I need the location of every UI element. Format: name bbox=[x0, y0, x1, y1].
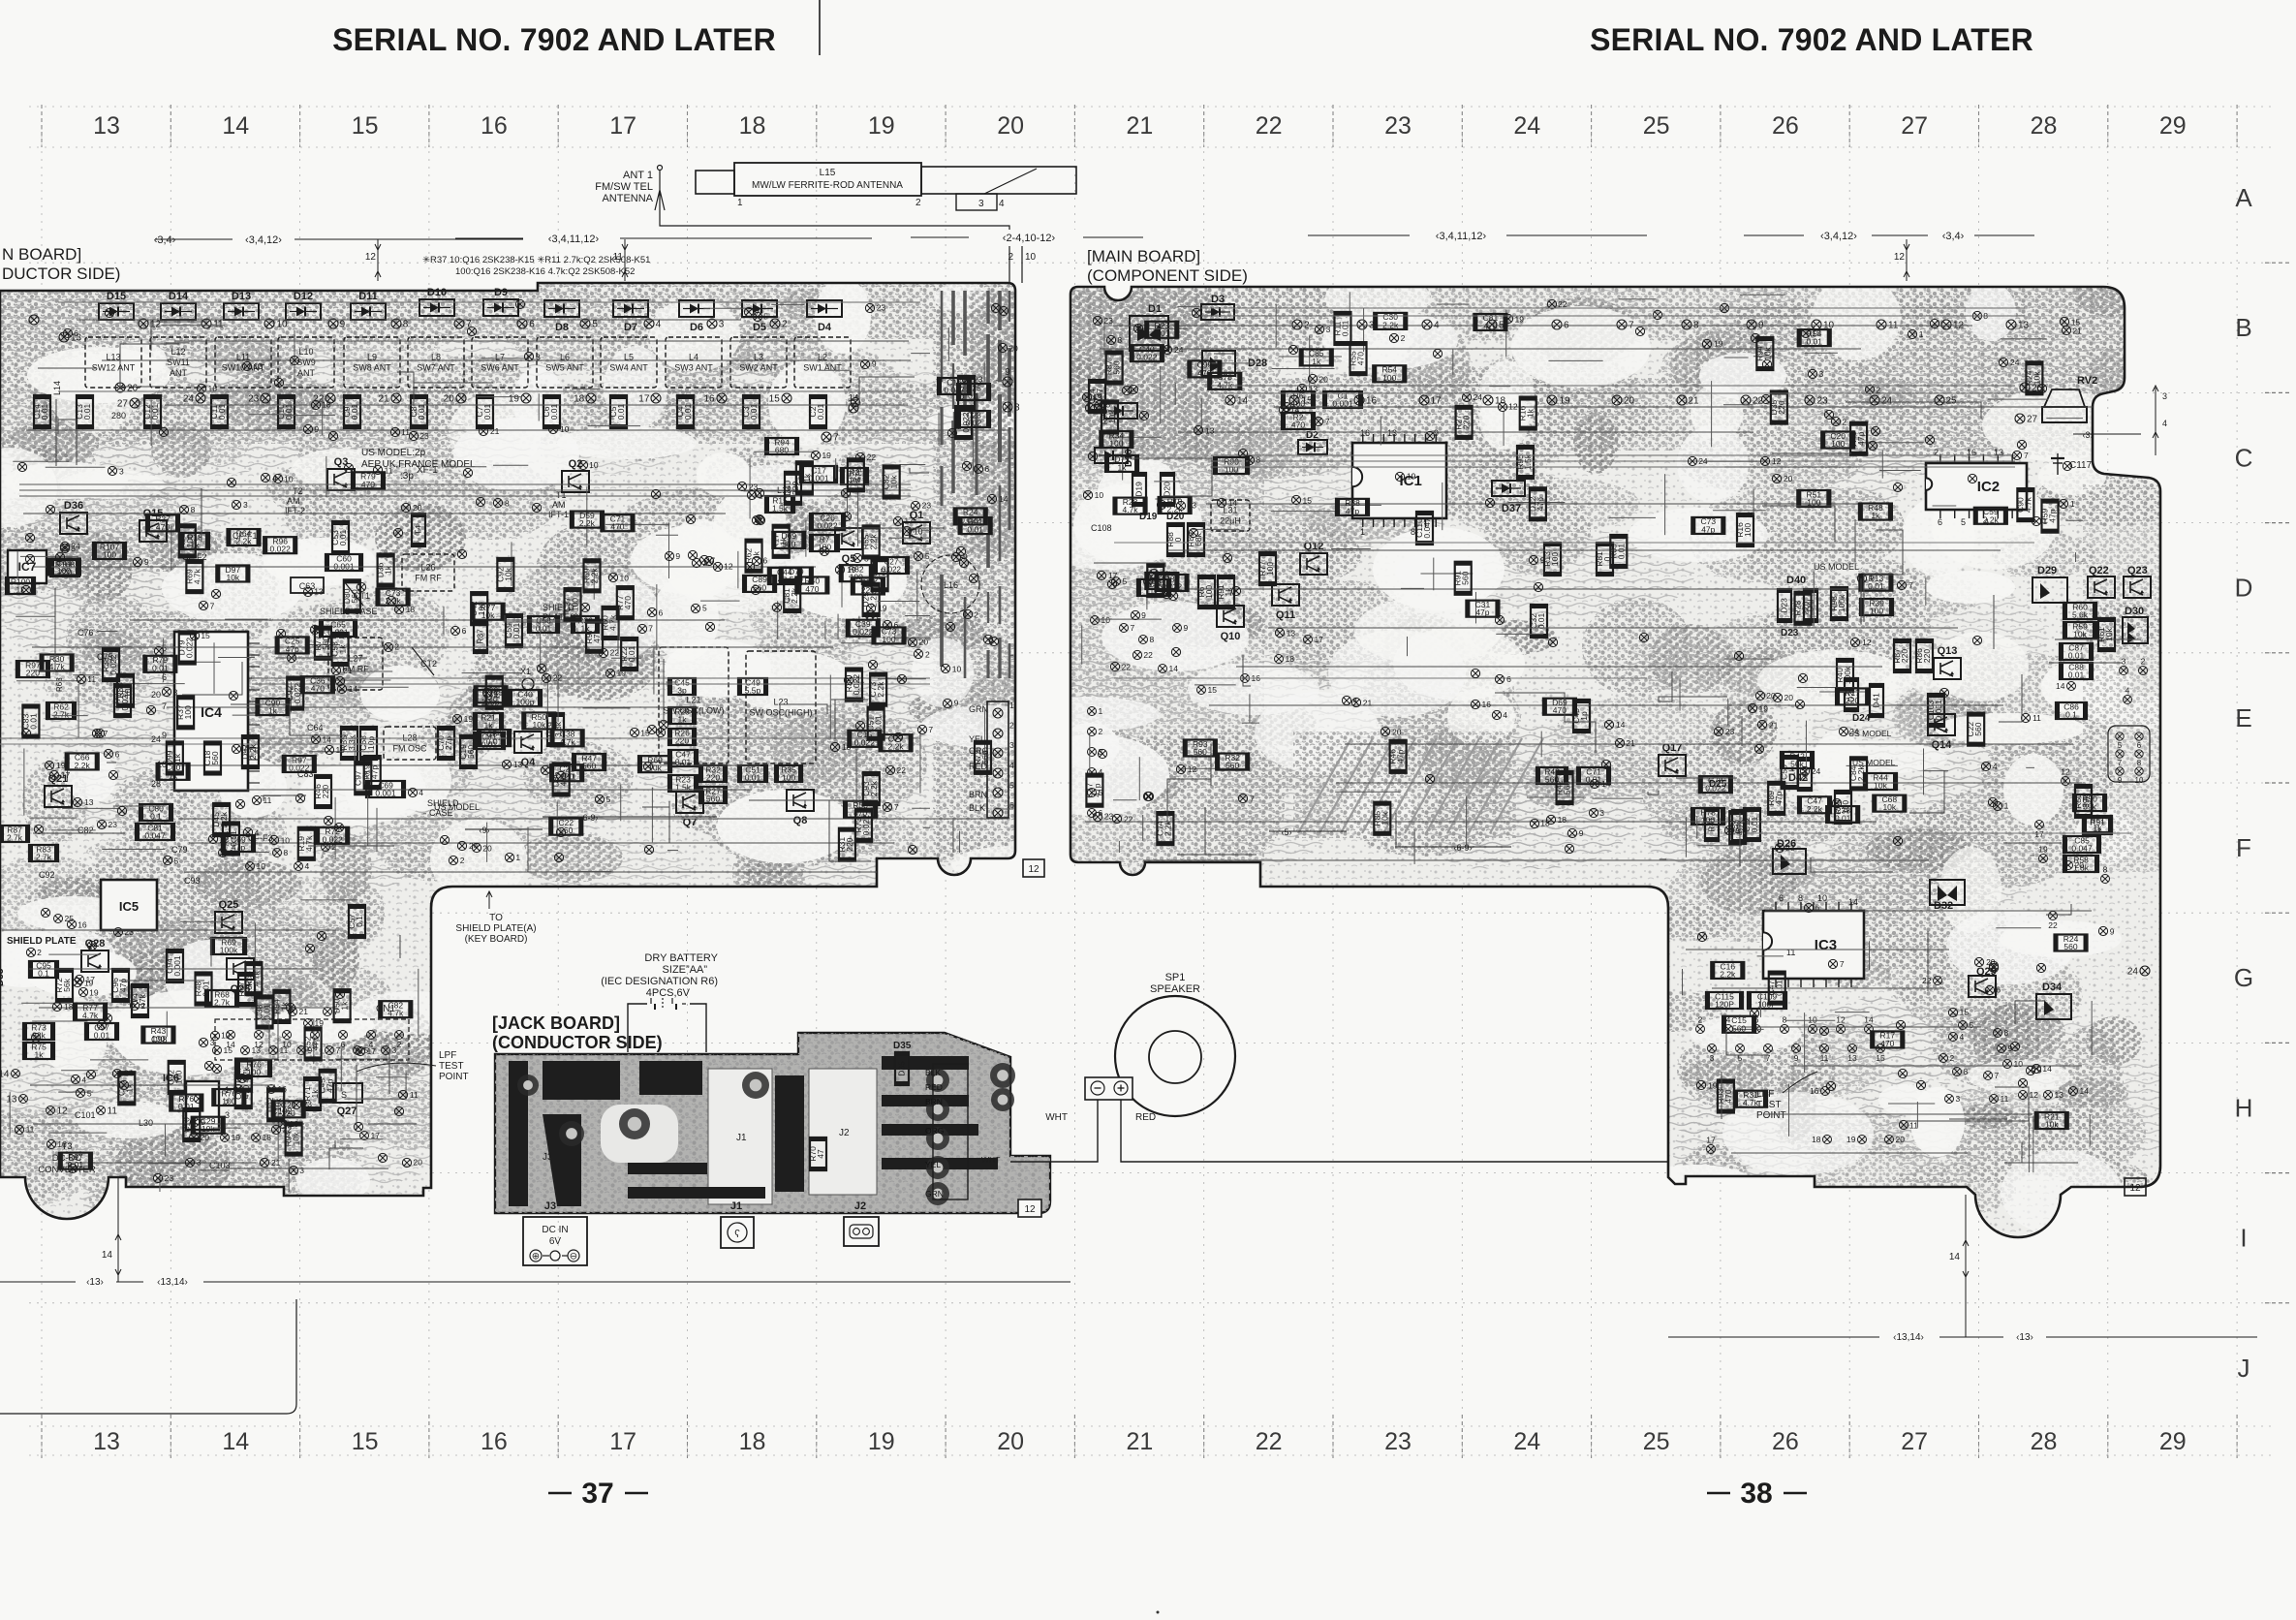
svg-text:6: 6 bbox=[74, 328, 78, 338]
svg-text:8: 8 bbox=[1783, 1015, 1787, 1025]
svg-text:L14: L14 bbox=[52, 381, 62, 395]
svg-text:7: 7 bbox=[833, 433, 839, 444]
svg-text:560: 560 bbox=[1226, 761, 1239, 770]
svg-text:10: 10 bbox=[2135, 776, 2144, 785]
svg-text:1p: 1p bbox=[1579, 711, 1589, 721]
svg-text:11: 11 bbox=[1820, 1053, 1829, 1063]
svg-text:RV2: RV2 bbox=[2077, 375, 2097, 387]
svg-text:22: 22 bbox=[2048, 920, 2058, 930]
svg-text:470: 470 bbox=[1880, 1039, 1894, 1048]
svg-text:‹13,14›: ‹13,14› bbox=[1893, 1332, 1924, 1343]
svg-text:R63: R63 bbox=[55, 677, 64, 692]
svg-text:6: 6 bbox=[462, 626, 467, 636]
svg-text:28: 28 bbox=[2031, 1428, 2058, 1455]
svg-text:1: 1 bbox=[2070, 499, 2075, 509]
svg-text:10k: 10k bbox=[2032, 371, 2041, 385]
svg-text:0.01: 0.01 bbox=[94, 1031, 110, 1041]
svg-text:10k: 10k bbox=[2045, 1120, 2059, 1130]
svg-text:20: 20 bbox=[1624, 396, 1635, 407]
svg-text:23: 23 bbox=[749, 482, 759, 491]
svg-text:10: 10 bbox=[2014, 1059, 2024, 1069]
svg-text:FM/SW TEL: FM/SW TEL bbox=[595, 181, 653, 193]
svg-text:11: 11 bbox=[1909, 1120, 1918, 1130]
svg-text:100p: 100p bbox=[516, 698, 535, 707]
svg-text:7: 7 bbox=[1840, 959, 1845, 969]
svg-text:2.2k: 2.2k bbox=[888, 742, 905, 752]
svg-text:3: 3 bbox=[1818, 369, 1823, 379]
svg-text:Q8: Q8 bbox=[793, 815, 808, 826]
svg-text:24: 24 bbox=[2127, 967, 2139, 978]
svg-text:0.022: 0.022 bbox=[185, 638, 195, 659]
svg-text:4.7k: 4.7k bbox=[360, 769, 370, 786]
svg-text:13: 13 bbox=[254, 361, 264, 371]
svg-text:560: 560 bbox=[350, 589, 359, 603]
svg-text:4.7k: 4.7k bbox=[608, 614, 618, 631]
svg-text:10k: 10k bbox=[226, 573, 239, 582]
svg-text:⊕: ⊕ bbox=[532, 1252, 540, 1262]
svg-text:100: 100 bbox=[103, 550, 116, 560]
svg-text:0.01: 0.01 bbox=[536, 624, 552, 634]
svg-text:D9: D9 bbox=[494, 287, 508, 298]
svg-text:5: 5 bbox=[702, 604, 707, 613]
svg-text:ʕ: ʕ bbox=[734, 1229, 740, 1240]
svg-text:19: 19 bbox=[84, 978, 94, 987]
svg-text:1k: 1k bbox=[340, 1001, 350, 1011]
svg-text:19: 19 bbox=[868, 112, 895, 140]
svg-text:23: 23 bbox=[1725, 727, 1735, 736]
svg-text:10: 10 bbox=[1808, 1015, 1817, 1025]
svg-text:SW8 ANT: SW8 ANT bbox=[353, 363, 391, 373]
svg-text:20: 20 bbox=[1766, 691, 1776, 701]
svg-text:11: 11 bbox=[410, 1090, 419, 1100]
svg-text:6V: 6V bbox=[549, 1236, 562, 1247]
svg-text:20: 20 bbox=[1008, 343, 1018, 353]
svg-text:12: 12 bbox=[1508, 402, 1518, 412]
svg-text:100: 100 bbox=[1831, 439, 1845, 449]
svg-text:2.7k: 2.7k bbox=[53, 710, 70, 720]
svg-text:27: 27 bbox=[1901, 1428, 1928, 1455]
svg-text:20: 20 bbox=[1392, 727, 1402, 736]
svg-text:7: 7 bbox=[336, 1045, 341, 1055]
svg-text:J2: J2 bbox=[854, 1200, 866, 1212]
svg-text:17: 17 bbox=[609, 112, 636, 140]
svg-text:11: 11 bbox=[401, 427, 410, 437]
svg-text:4: 4 bbox=[2125, 686, 2130, 696]
svg-text:2: 2 bbox=[915, 198, 921, 208]
svg-text:10: 10 bbox=[1025, 252, 1037, 263]
svg-text:47: 47 bbox=[816, 1149, 825, 1159]
svg-text:100: 100 bbox=[1204, 585, 1214, 599]
svg-text:4: 4 bbox=[1960, 1032, 1965, 1042]
svg-text:21: 21 bbox=[2072, 326, 2082, 335]
svg-text:Q13: Q13 bbox=[1938, 645, 1958, 657]
svg-text:2.7k: 2.7k bbox=[214, 998, 231, 1008]
svg-text:14: 14 bbox=[323, 734, 332, 744]
svg-text:FM RF: FM RF bbox=[415, 574, 442, 583]
svg-text:L12: L12 bbox=[171, 347, 185, 357]
svg-text:2: 2 bbox=[460, 856, 465, 865]
svg-text:2.2k: 2.2k bbox=[1983, 514, 2000, 524]
svg-text:2.2k: 2.2k bbox=[869, 780, 879, 796]
svg-text:CT2: CT2 bbox=[420, 659, 437, 669]
svg-text:0.01: 0.01 bbox=[417, 403, 426, 420]
svg-text:J2: J2 bbox=[839, 1128, 850, 1138]
svg-text::3p: :3p bbox=[400, 471, 414, 482]
svg-text:SW7 ANT: SW7 ANT bbox=[417, 363, 455, 373]
svg-text:280: 280 bbox=[111, 411, 126, 421]
svg-text:TO: TO bbox=[489, 913, 503, 923]
svg-text:100: 100 bbox=[1743, 523, 1753, 537]
svg-text:15: 15 bbox=[352, 1428, 379, 1455]
svg-text:12: 12 bbox=[1862, 638, 1872, 647]
svg-text:(COMPONENT SIDE): (COMPONENT SIDE) bbox=[1087, 266, 1248, 285]
svg-text:Q27: Q27 bbox=[337, 1106, 357, 1117]
svg-text:11: 11 bbox=[26, 1125, 35, 1135]
svg-text:1.5k: 1.5k bbox=[1523, 453, 1533, 470]
svg-text:23: 23 bbox=[165, 1173, 174, 1183]
svg-text:220: 220 bbox=[861, 585, 875, 595]
svg-text:23: 23 bbox=[877, 303, 886, 313]
svg-text:100: 100 bbox=[1382, 373, 1396, 383]
svg-text:23: 23 bbox=[1103, 316, 1113, 326]
svg-text:C: C bbox=[2235, 443, 2253, 472]
svg-text:14: 14 bbox=[1864, 1015, 1874, 1025]
svg-text:ANT: ANT bbox=[170, 368, 188, 378]
svg-text:L30: L30 bbox=[139, 1118, 153, 1128]
svg-text:6: 6 bbox=[162, 672, 167, 682]
svg-text:19: 19 bbox=[1407, 472, 1416, 482]
svg-text:9: 9 bbox=[1005, 367, 1010, 378]
svg-text:18: 18 bbox=[64, 1002, 74, 1012]
svg-text:WHT: WHT bbox=[981, 1155, 1000, 1165]
svg-text:12: 12 bbox=[2030, 1090, 2039, 1100]
svg-text:4: 4 bbox=[999, 199, 1005, 209]
svg-text:47p: 47p bbox=[853, 468, 863, 482]
svg-text:D34: D34 bbox=[2042, 981, 2063, 993]
svg-text:20: 20 bbox=[413, 503, 422, 513]
svg-text:10k: 10k bbox=[648, 763, 662, 773]
svg-text:22: 22 bbox=[1558, 299, 1567, 309]
svg-text:9: 9 bbox=[1141, 610, 1146, 620]
svg-text:17: 17 bbox=[904, 515, 914, 525]
svg-text:47p: 47p bbox=[778, 576, 791, 585]
svg-text:1k: 1k bbox=[802, 473, 812, 483]
svg-text:470: 470 bbox=[361, 480, 375, 489]
svg-text:5: 5 bbox=[1970, 1020, 1974, 1030]
svg-text:9: 9 bbox=[1184, 623, 1189, 633]
svg-text:1: 1 bbox=[2004, 801, 2009, 811]
svg-text:Q25: Q25 bbox=[219, 899, 239, 911]
svg-text:ANTENNA: ANTENNA bbox=[602, 193, 653, 204]
svg-text:1: 1 bbox=[1099, 706, 1103, 716]
svg-text:100: 100 bbox=[174, 1071, 184, 1084]
svg-text:24: 24 bbox=[1474, 392, 1483, 402]
svg-text:13: 13 bbox=[1847, 1053, 1857, 1063]
svg-text:470: 470 bbox=[623, 596, 633, 609]
svg-text:12: 12 bbox=[150, 320, 162, 330]
svg-text:20: 20 bbox=[413, 1158, 422, 1168]
svg-text:100: 100 bbox=[1109, 439, 1123, 449]
svg-text:24: 24 bbox=[1812, 766, 1821, 776]
svg-text:11: 11 bbox=[263, 795, 271, 805]
svg-text:2: 2 bbox=[2141, 657, 2146, 667]
svg-text:0.022: 0.022 bbox=[289, 763, 310, 772]
svg-text:8: 8 bbox=[1150, 635, 1155, 644]
svg-text:C92: C92 bbox=[39, 870, 55, 880]
svg-text:16: 16 bbox=[1482, 700, 1492, 709]
svg-text:US MODEL: US MODEL bbox=[1814, 562, 1859, 572]
svg-text:11: 11 bbox=[280, 1045, 289, 1055]
svg-text:10: 10 bbox=[257, 861, 266, 871]
svg-text:6: 6 bbox=[529, 320, 535, 330]
svg-text:SW9: SW9 bbox=[296, 358, 316, 367]
svg-text:0.022: 0.022 bbox=[960, 515, 981, 525]
svg-text:6: 6 bbox=[1996, 985, 2001, 995]
svg-text:D33: D33 bbox=[0, 968, 6, 986]
svg-text:D1: D1 bbox=[1148, 303, 1162, 315]
svg-text:D6: D6 bbox=[690, 322, 703, 333]
svg-text:8: 8 bbox=[1256, 455, 1260, 465]
svg-text:47p: 47p bbox=[1346, 506, 1359, 515]
svg-text:15: 15 bbox=[1208, 685, 1218, 695]
svg-text:D24: D24 bbox=[1852, 713, 1871, 724]
svg-text:3: 3 bbox=[978, 199, 984, 209]
svg-text:J1: J1 bbox=[736, 1133, 747, 1143]
svg-text:4PCS,6V: 4PCS,6V bbox=[646, 987, 691, 999]
svg-text:0.022: 0.022 bbox=[1705, 784, 1726, 794]
svg-text:FM OSC: FM OSC bbox=[393, 744, 427, 754]
svg-text:18: 18 bbox=[739, 112, 766, 140]
svg-text:6: 6 bbox=[1779, 893, 1784, 903]
svg-text:1k: 1k bbox=[172, 753, 182, 763]
svg-text:29: 29 bbox=[2159, 1428, 2187, 1455]
svg-text:1.8k: 1.8k bbox=[2073, 863, 2090, 873]
svg-text:10: 10 bbox=[1095, 490, 1104, 500]
svg-text:7: 7 bbox=[1908, 580, 1913, 590]
svg-text:2: 2 bbox=[1009, 721, 1014, 731]
svg-text:11: 11 bbox=[108, 1106, 118, 1117]
svg-text:2: 2 bbox=[1099, 727, 1103, 736]
svg-text:18: 18 bbox=[1286, 654, 1295, 664]
svg-text:Q14: Q14 bbox=[1932, 739, 1953, 751]
svg-text:‹13›: ‹13› bbox=[86, 1277, 104, 1288]
svg-text:CASE: CASE bbox=[429, 808, 453, 818]
svg-text:4: 4 bbox=[1503, 710, 1507, 720]
svg-text:D11: D11 bbox=[358, 291, 378, 302]
svg-text:0.01: 0.01 bbox=[152, 663, 169, 672]
svg-text:0.01: 0.01 bbox=[745, 773, 761, 783]
svg-text:15: 15 bbox=[224, 1045, 233, 1055]
svg-text:13: 13 bbox=[93, 1428, 120, 1455]
svg-text:⊖: ⊖ bbox=[570, 1252, 577, 1262]
svg-text:2: 2 bbox=[974, 609, 978, 619]
svg-text:560: 560 bbox=[980, 750, 990, 763]
svg-text:6: 6 bbox=[115, 749, 120, 759]
svg-text:5.5p: 5.5p bbox=[745, 686, 761, 696]
svg-text:4.7k: 4.7k bbox=[241, 1067, 251, 1083]
svg-text:(KEY BOARD): (KEY BOARD) bbox=[465, 934, 528, 945]
svg-text:5.6k: 5.6k bbox=[2072, 610, 2089, 620]
svg-text:15: 15 bbox=[769, 394, 781, 405]
svg-text:560: 560 bbox=[1732, 1023, 1746, 1033]
svg-text:0.01: 0.01 bbox=[1750, 816, 1759, 832]
svg-text:16: 16 bbox=[78, 919, 87, 929]
svg-text:47p: 47p bbox=[311, 1037, 321, 1050]
svg-text:11: 11 bbox=[213, 320, 224, 330]
svg-text:13: 13 bbox=[314, 587, 324, 597]
svg-text:5: 5 bbox=[763, 312, 768, 322]
svg-text:ANT 1: ANT 1 bbox=[623, 170, 653, 181]
svg-text:6: 6 bbox=[2137, 741, 2142, 750]
svg-text:22: 22 bbox=[1256, 112, 1283, 140]
svg-text:‹13,14›: ‹13,14› bbox=[157, 1277, 188, 1288]
svg-text:20: 20 bbox=[1319, 374, 1328, 384]
svg-text:7: 7 bbox=[162, 701, 167, 711]
svg-text:2: 2 bbox=[1842, 417, 1846, 426]
svg-text:D35: D35 bbox=[893, 1041, 912, 1051]
svg-text:23: 23 bbox=[419, 431, 429, 441]
svg-text:4.7k: 4.7k bbox=[251, 970, 261, 986]
svg-text:1k: 1k bbox=[964, 388, 974, 397]
svg-text:4: 4 bbox=[81, 1075, 86, 1084]
svg-text:0.01: 0.01 bbox=[68, 1160, 84, 1169]
svg-text:SHIELD PLATE(A): SHIELD PLATE(A) bbox=[455, 923, 536, 934]
svg-text:BRN: BRN bbox=[969, 790, 987, 799]
svg-text:10: 10 bbox=[284, 474, 294, 483]
svg-text:D30: D30 bbox=[2125, 606, 2144, 617]
svg-text:14: 14 bbox=[1949, 1252, 1961, 1262]
svg-text:100: 100 bbox=[123, 683, 133, 697]
svg-text:5: 5 bbox=[667, 728, 672, 737]
svg-text:11: 11 bbox=[87, 674, 96, 684]
svg-text:4: 4 bbox=[305, 861, 310, 871]
svg-text:14: 14 bbox=[222, 1428, 249, 1455]
svg-text:19: 19 bbox=[1714, 339, 1723, 349]
svg-text:470: 470 bbox=[1483, 321, 1497, 330]
svg-text:25: 25 bbox=[1643, 112, 1670, 140]
svg-text:220: 220 bbox=[1922, 649, 1932, 663]
svg-text:DC IN: DC IN bbox=[542, 1225, 568, 1235]
svg-text:100: 100 bbox=[185, 534, 195, 547]
svg-text:L10: L10 bbox=[298, 347, 313, 357]
svg-text:ANT: ANT bbox=[297, 368, 316, 378]
svg-text:2.7k: 2.7k bbox=[7, 833, 23, 843]
svg-text:ORG: ORG bbox=[925, 1126, 944, 1136]
svg-text:17: 17 bbox=[609, 1428, 636, 1455]
svg-text:0.022: 0.022 bbox=[852, 674, 861, 696]
svg-text:15: 15 bbox=[1876, 1053, 1885, 1063]
svg-text:9: 9 bbox=[2008, 1044, 2013, 1053]
svg-text:1k: 1k bbox=[1526, 408, 1536, 418]
svg-text:100: 100 bbox=[151, 1034, 165, 1044]
svg-text:13: 13 bbox=[2055, 1090, 2064, 1100]
svg-text:2.2k: 2.2k bbox=[1382, 320, 1399, 329]
svg-text:7: 7 bbox=[2118, 759, 2123, 767]
svg-text:‹9›: ‹9› bbox=[480, 826, 490, 835]
svg-text:1: 1 bbox=[1919, 329, 1924, 339]
svg-text:13: 13 bbox=[84, 797, 94, 807]
svg-text:0.01: 0.01 bbox=[1536, 612, 1546, 629]
svg-text:Q11: Q11 bbox=[1276, 609, 1295, 621]
svg-text:D23: D23 bbox=[1780, 598, 1789, 613]
svg-text:24: 24 bbox=[469, 841, 479, 851]
svg-text:D13: D13 bbox=[232, 291, 251, 302]
svg-text:2: 2 bbox=[1401, 333, 1406, 343]
svg-text:2.2k: 2.2k bbox=[876, 681, 885, 698]
svg-text:47p: 47p bbox=[1396, 749, 1406, 763]
svg-text:16: 16 bbox=[57, 1139, 67, 1149]
svg-text:J: J bbox=[2238, 1354, 2250, 1383]
svg-text:14: 14 bbox=[999, 494, 1008, 504]
svg-text:21: 21 bbox=[1626, 738, 1635, 748]
svg-text:19: 19 bbox=[1846, 1135, 1856, 1144]
svg-text:9: 9 bbox=[954, 699, 959, 708]
svg-text:SW11: SW11 bbox=[167, 358, 190, 367]
svg-text:LPF: LPF bbox=[439, 1050, 456, 1061]
svg-text:3: 3 bbox=[2122, 657, 2126, 667]
svg-text:470: 470 bbox=[1723, 1089, 1733, 1103]
svg-text:H: H bbox=[2235, 1093, 2253, 1122]
svg-text:0.047: 0.047 bbox=[2071, 844, 2093, 854]
svg-text:5: 5 bbox=[592, 320, 598, 330]
svg-text:100: 100 bbox=[571, 598, 580, 611]
svg-text:5: 5 bbox=[174, 856, 179, 865]
svg-text:5: 5 bbox=[87, 1088, 92, 1098]
svg-text:7: 7 bbox=[928, 725, 933, 734]
svg-text:0.01: 0.01 bbox=[1340, 320, 1350, 336]
svg-text:19: 19 bbox=[2038, 845, 2048, 855]
svg-text:23: 23 bbox=[1384, 1428, 1412, 1455]
svg-text:2.2k: 2.2k bbox=[1720, 969, 1736, 979]
svg-text:0.01: 0.01 bbox=[1835, 814, 1851, 824]
svg-text:26: 26 bbox=[1772, 112, 1799, 140]
svg-text:9: 9 bbox=[2110, 926, 2115, 936]
svg-text:10: 10 bbox=[620, 573, 630, 582]
svg-text:7: 7 bbox=[1131, 623, 1135, 633]
svg-text:680: 680 bbox=[775, 446, 789, 455]
svg-text:10k: 10k bbox=[1882, 802, 1896, 812]
svg-text:0.1: 0.1 bbox=[355, 916, 364, 927]
svg-text:13: 13 bbox=[1387, 428, 1397, 438]
svg-text:2.2k: 2.2k bbox=[1167, 504, 1184, 514]
svg-text:23: 23 bbox=[922, 501, 932, 511]
svg-text:27: 27 bbox=[117, 399, 129, 410]
svg-text:S: S bbox=[341, 1090, 347, 1100]
svg-text:24: 24 bbox=[1174, 345, 1184, 355]
svg-text:SERIAL NO. 7902 AND LATER: SERIAL NO. 7902 AND LATER bbox=[1590, 22, 2033, 57]
svg-text:21: 21 bbox=[271, 1158, 281, 1168]
svg-text:23: 23 bbox=[1384, 112, 1412, 140]
svg-text:0.047: 0.047 bbox=[1422, 517, 1432, 539]
svg-text:14: 14 bbox=[1616, 720, 1626, 730]
svg-text:10k: 10k bbox=[1380, 811, 1389, 825]
svg-text:47p: 47p bbox=[232, 843, 245, 853]
svg-text:18: 18 bbox=[263, 1133, 272, 1142]
svg-text:10: 10 bbox=[560, 424, 570, 434]
svg-text:8: 8 bbox=[1014, 403, 1020, 414]
svg-text:0.01: 0.01 bbox=[1868, 581, 1884, 591]
svg-text:5: 5 bbox=[1961, 517, 1966, 527]
svg-text:12: 12 bbox=[2061, 767, 2070, 777]
svg-text:18: 18 bbox=[574, 394, 585, 405]
svg-text:L16: L16 bbox=[944, 580, 958, 590]
svg-text:L23: L23 bbox=[773, 698, 788, 707]
svg-text:Q3: Q3 bbox=[334, 456, 349, 468]
svg-text:AM: AM bbox=[552, 500, 566, 510]
svg-text:10k: 10k bbox=[503, 567, 512, 580]
svg-text:Q10: Q10 bbox=[1221, 631, 1241, 642]
svg-text:11: 11 bbox=[2001, 1094, 2009, 1104]
